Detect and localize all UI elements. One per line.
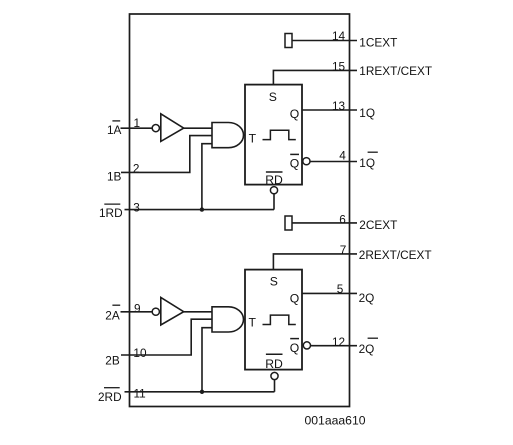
svg-text:2REXT/CEXT: 2REXT/CEXT [359, 248, 432, 262]
wire RD bubble stem [274, 380, 276, 392]
svg-text:RD: RD [265, 173, 283, 187]
label 1Q [359, 106, 375, 120]
monostable U2 box [245, 85, 302, 185]
wire pin11 (2RD) to monostable RD bubble [125, 391, 275, 393]
label 2Q [359, 291, 375, 305]
pin number 7 [340, 243, 347, 257]
U4 overbar on RD [266, 353, 283, 355]
AND gate A2 [212, 307, 243, 332]
svg-text:001aaa610: 001aaa610 [305, 414, 366, 428]
label 1CEXT [359, 36, 397, 50]
svg-text:2B: 2B [105, 354, 120, 368]
pin number 2 [133, 161, 140, 175]
svg-text:6: 6 [339, 212, 346, 226]
wire pin15 to monostable top (S) [273, 70, 357, 84]
svg-text:11: 11 [134, 386, 146, 400]
pin number 4 [339, 148, 346, 162]
wire pin12 (Qbar output) [311, 345, 358, 347]
svg-text:1Q: 1Q [359, 156, 375, 170]
pin14 CEXT terminal [285, 34, 292, 48]
svg-text:13: 13 [332, 99, 346, 113]
inverter U1 triangle [161, 114, 184, 142]
svg-text:12: 12 [332, 335, 345, 349]
label 1Qbar [359, 156, 375, 170]
U2 label S [269, 90, 277, 104]
svg-text:2Q: 2Q [359, 342, 375, 356]
label 1RD [99, 206, 123, 220]
overbar on A of 2A [112, 304, 120, 306]
svg-text:1CEXT: 1CEXT [359, 36, 397, 50]
inverter U3 triangle [161, 297, 184, 325]
wire pin14 [292, 40, 357, 42]
junction dot pin3 / AND branch [200, 207, 204, 211]
overbar on RD of 2RD [104, 387, 120, 389]
label 2REXT/CEXT [359, 248, 432, 262]
wire pin13 (Q output) [302, 109, 357, 111]
U2 Qbar output bubble [303, 158, 310, 165]
wire RD branch to AND gate [202, 144, 212, 210]
svg-text:2A: 2A [105, 308, 120, 322]
overbar on RD of 1RD [104, 203, 120, 205]
inverter U3 input bubble [152, 308, 159, 315]
svg-text:RD: RD [265, 357, 283, 371]
svg-text:Q: Q [290, 107, 299, 121]
label 2CEXT [359, 218, 397, 232]
label 1REXT/CEXT [359, 64, 432, 78]
monostable U4 box [245, 270, 302, 370]
wire pin4 (Qbar output) [310, 161, 357, 163]
svg-text:S: S [270, 274, 278, 288]
pin number 10 [133, 346, 147, 360]
svg-text:15: 15 [332, 59, 346, 73]
label 2A (active-low) [105, 308, 120, 322]
U4 label Qbar [290, 341, 299, 355]
svg-text:7: 7 [340, 243, 347, 257]
svg-text:2CEXT: 2CEXT [359, 218, 397, 232]
wire RD bubble stem [273, 194, 275, 210]
U2 overbar on Qbar [290, 153, 299, 155]
U2 label T [249, 132, 257, 146]
svg-text:10: 10 [133, 346, 147, 360]
svg-text:9: 9 [134, 301, 141, 315]
pin number 13 [332, 99, 346, 113]
wire pin7 to monostable top (S) [273, 254, 357, 270]
wire RD branch to AND gate [202, 328, 212, 392]
wire pin10 (2B) to AND gate [121, 319, 212, 355]
U2 trigger pulse glyph [263, 130, 296, 139]
label 1B [107, 169, 122, 183]
pin number 11 [134, 386, 146, 400]
wire pin6 [292, 222, 357, 224]
wire pin5 (Q output) [302, 292, 357, 294]
wire pin1 to inverter [121, 127, 153, 129]
pin6 CEXT terminal [285, 216, 292, 230]
U4 label RD [265, 357, 283, 371]
U2 label Q [290, 107, 299, 121]
svg-text:2Q: 2Q [359, 291, 375, 305]
label 2B [105, 354, 120, 368]
svg-text:Q: Q [290, 291, 299, 305]
label 2RD [98, 390, 122, 404]
U2 label RD [265, 173, 283, 187]
pin number 14 [332, 29, 346, 43]
wire AND output to monostable T [244, 134, 246, 136]
overbar on Q of 2Qbar [368, 337, 378, 339]
AND gate A1 [212, 123, 244, 148]
U2 label Qbar [290, 156, 299, 170]
U2 RD input bubble [270, 187, 277, 194]
U4 RD input bubble [271, 372, 278, 379]
pin number 12 [332, 335, 345, 349]
pin number 5 [337, 282, 344, 296]
wire pin2 (1B) to AND gate [121, 136, 212, 173]
U4 label T [249, 315, 257, 329]
svg-text:Q: Q [290, 156, 299, 170]
U4 label S [270, 274, 278, 288]
label 2Qbar [359, 342, 375, 356]
figure reference 001aaa610 [305, 414, 366, 428]
svg-text:1REXT/CEXT: 1REXT/CEXT [359, 64, 432, 78]
svg-text:1RD: 1RD [99, 206, 123, 220]
pin number 6 [339, 212, 346, 226]
junction dot pin11 / AND branch [200, 390, 204, 394]
U4 trigger pulse glyph [263, 315, 296, 324]
pin number 9 [134, 301, 141, 315]
svg-text:1Q: 1Q [359, 106, 375, 120]
svg-text:4: 4 [339, 148, 346, 162]
U4 label Q [290, 291, 299, 305]
overbar on A of 1A [112, 120, 120, 122]
wire pin9 to inverter [121, 311, 153, 313]
overbar on Q of 1Qbar [368, 151, 378, 153]
U4 overbar on Qbar [290, 338, 299, 340]
svg-text:S: S [269, 90, 277, 104]
U2 overbar on RD [266, 171, 283, 173]
wire AND output to monostable T [244, 318, 246, 320]
U4 Qbar output bubble [303, 342, 310, 349]
label 1A (active-low) [107, 123, 122, 137]
inverter U1 input bubble [152, 125, 159, 132]
outer package box [130, 14, 350, 407]
svg-text:3: 3 [133, 201, 140, 215]
svg-text:T: T [249, 315, 257, 329]
svg-text:1A: 1A [107, 123, 122, 137]
svg-text:2RD: 2RD [98, 390, 122, 404]
pin number 3 [133, 201, 140, 215]
svg-text:14: 14 [332, 29, 346, 43]
svg-text:5: 5 [337, 282, 344, 296]
wire pin3 (1RD) to monostable RD bubble [125, 209, 275, 211]
wire inverter output to AND gate [184, 311, 212, 313]
wire inverter output to AND gate [184, 127, 212, 129]
svg-text:T: T [249, 132, 257, 146]
svg-text:Q: Q [290, 341, 299, 355]
pin number 15 [332, 59, 346, 73]
svg-text:1B: 1B [107, 169, 122, 183]
pin number 1 [134, 116, 141, 130]
